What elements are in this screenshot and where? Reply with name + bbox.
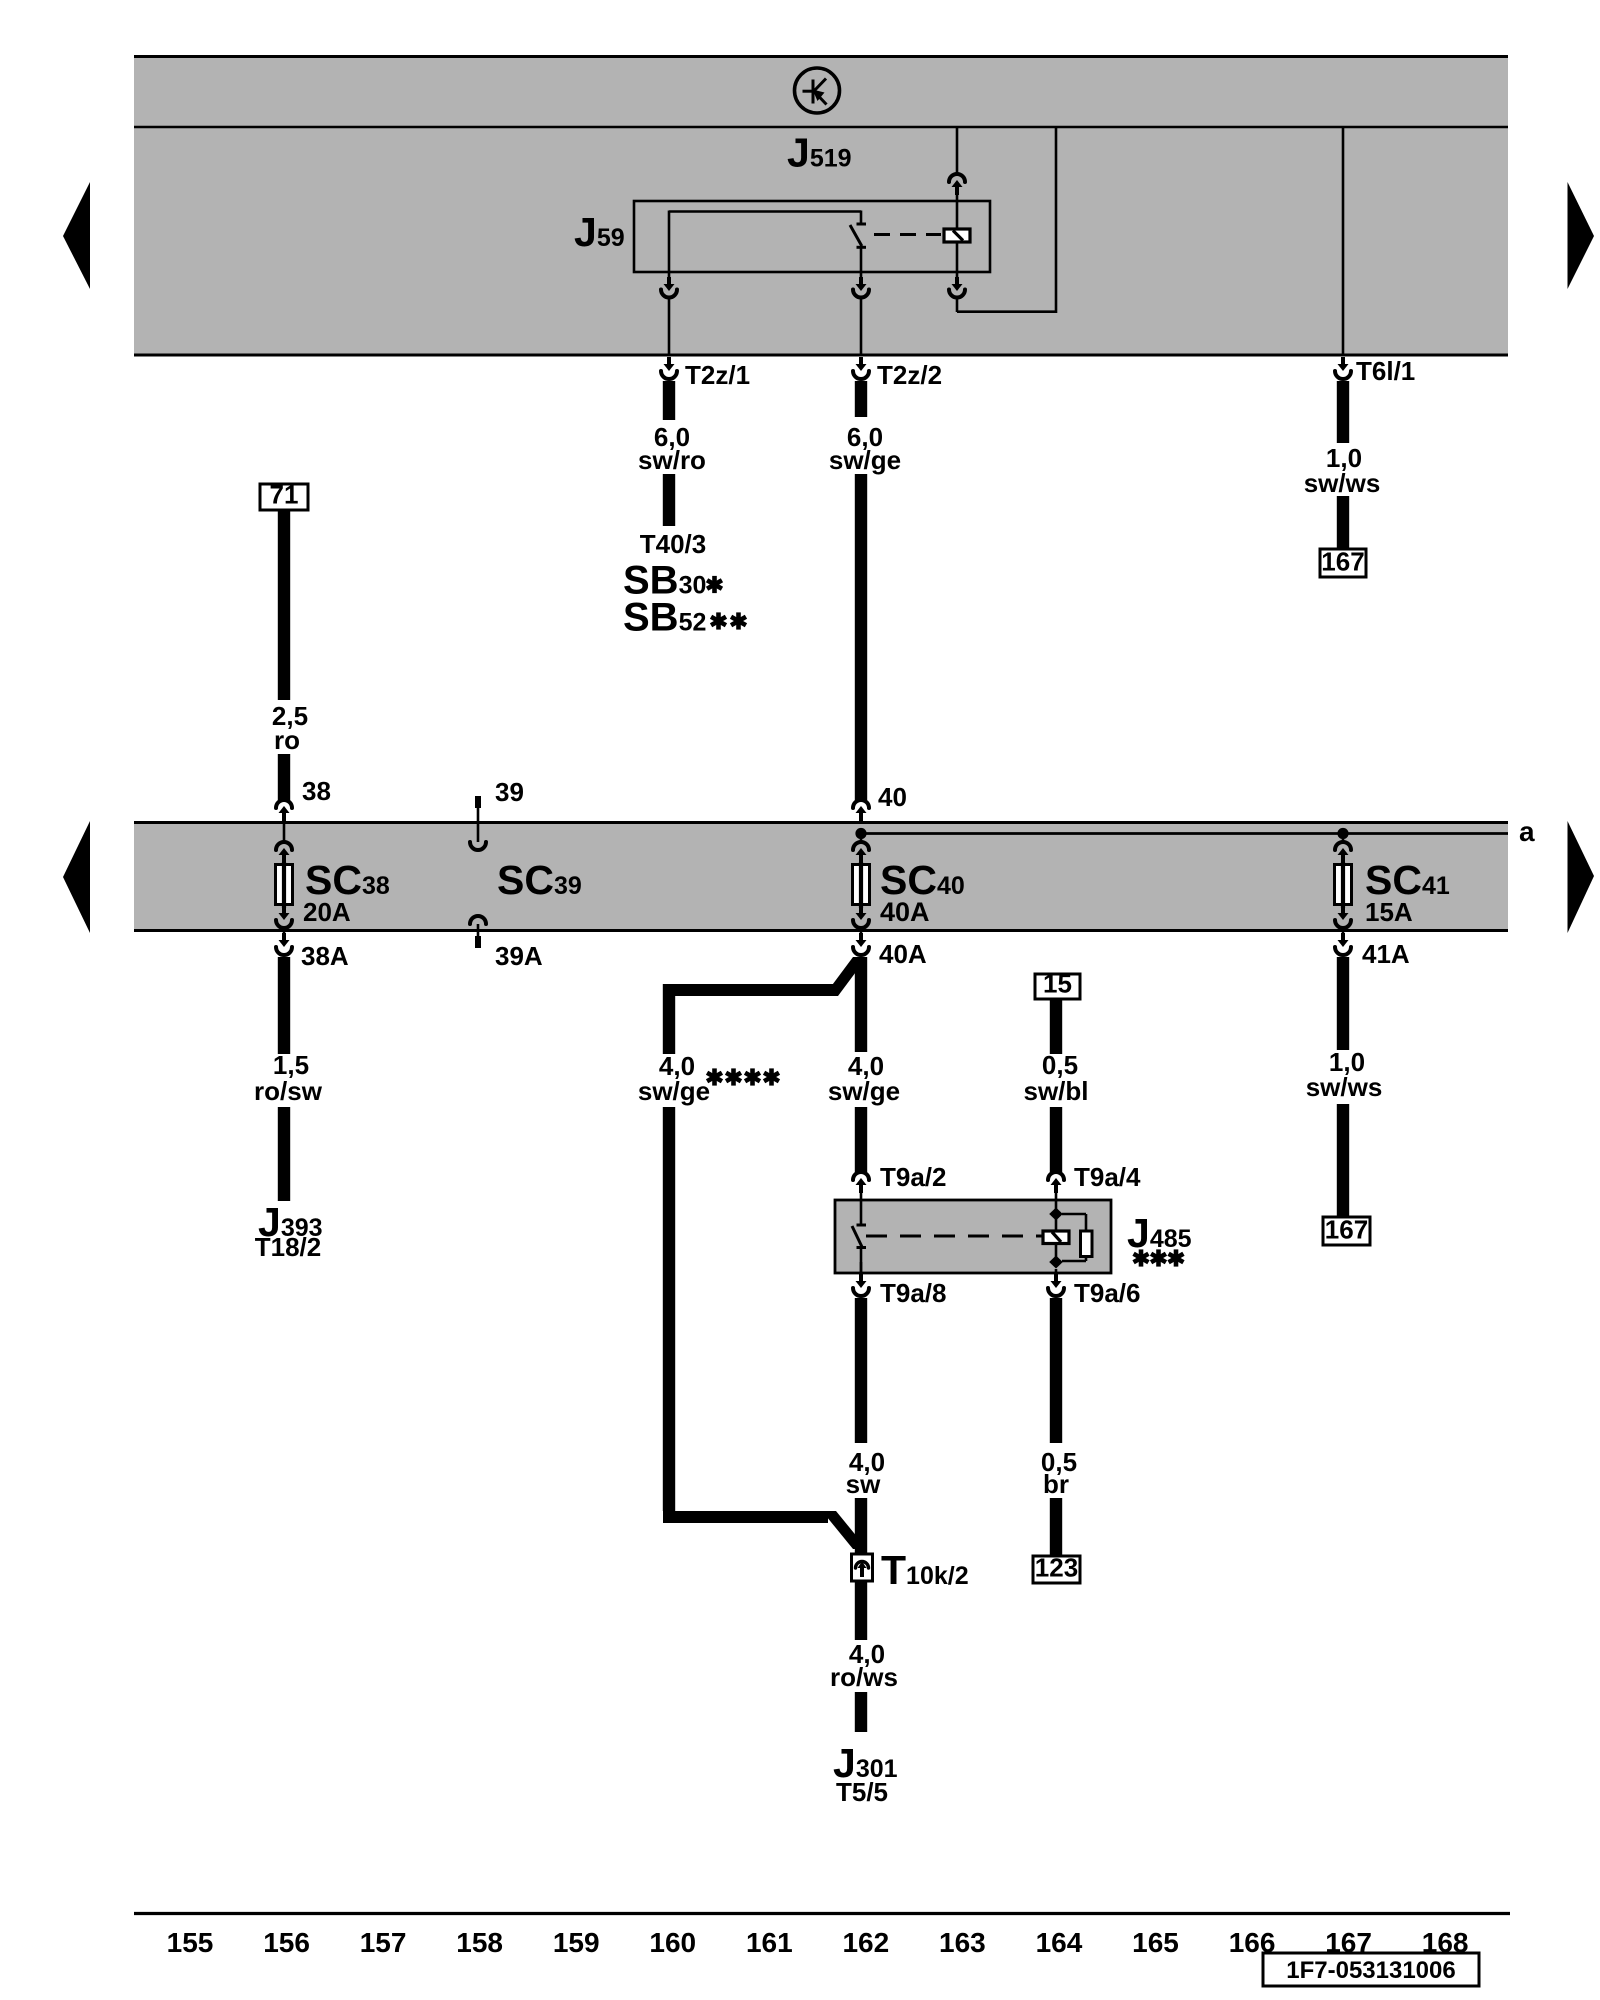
svg-text:sw/ge: sw/ge <box>638 1076 710 1106</box>
wire 1,0 sw/ws top lower <box>1337 496 1349 549</box>
relay box J59 <box>634 201 990 272</box>
switch J485 <box>860 1200 863 1225</box>
svg-text:165: 165 <box>1132 1927 1179 1958</box>
wire 4,0 ro/ws upper <box>855 1581 867 1640</box>
connector 38A <box>282 933 286 942</box>
wire J59 internal top run <box>669 210 861 213</box>
node a junction at SC40 <box>855 828 866 839</box>
wire branch bottom diagonal <box>822 1511 867 1549</box>
wire 4,0 ro/ws lower <box>855 1692 867 1732</box>
wire 4,0 sw/ge to T9a/2 <box>855 1107 867 1172</box>
fuse panel gray band <box>134 821 1508 932</box>
fuse position SC39 upper stub <box>475 796 481 808</box>
svg-text:sw/ws: sw/ws <box>1306 1072 1383 1102</box>
svg-text:155: 155 <box>167 1927 214 1958</box>
svg-text:T18/2: T18/2 <box>255 1232 322 1262</box>
terminal J59 pin left (to T2z/1) <box>667 277 671 286</box>
svg-text:T2z/2: T2z/2 <box>877 360 942 390</box>
svg-text:T9a/2: T9a/2 <box>880 1162 947 1192</box>
terminal box 15 <box>1035 974 1080 999</box>
terminal J59 coil bottom <box>956 242 959 277</box>
svg-text:163: 163 <box>939 1927 986 1958</box>
svg-text:167: 167 <box>1325 1215 1368 1245</box>
svg-text:sw: sw <box>846 1469 881 1499</box>
wire 0,5 sw/bl lower <box>1050 1107 1062 1172</box>
continuation arrow top-left <box>63 182 90 289</box>
bus wire a <box>861 832 1508 835</box>
wire 6,0 sw/ro lower <box>663 474 675 526</box>
dashed actuation line J485 <box>866 1235 1042 1238</box>
wire 2,5 ro lower <box>278 754 290 800</box>
fuse SC40 <box>860 839 863 843</box>
relay box J485 <box>835 1200 1111 1273</box>
svg-text:20A: 20A <box>303 897 351 927</box>
svg-text:ro/sw: ro/sw <box>254 1076 323 1106</box>
svg-text:38: 38 <box>302 776 331 806</box>
interior-light symbol K in circle <box>795 68 840 113</box>
svg-text:sw/ro: sw/ro <box>638 445 706 475</box>
svg-text:158: 158 <box>456 1927 503 1958</box>
fuse SC41 <box>1342 839 1345 843</box>
svg-text:sw/ws: sw/ws <box>1304 468 1381 498</box>
connector node 38 <box>276 800 292 808</box>
wire 4,0 sw/ge branch vertical upper <box>663 984 675 1054</box>
svg-text:T2z/1: T2z/1 <box>685 360 750 390</box>
wire 0,5 br lower <box>1050 1498 1062 1556</box>
wire 4,0 sw lower <box>855 1498 867 1556</box>
svg-text:T9a/8: T9a/8 <box>880 1278 947 1308</box>
connector T9a/6 <box>1055 1269 1058 1273</box>
dashed actuation line J59 <box>874 233 941 236</box>
svg-text:T5/5: T5/5 <box>836 1777 888 1807</box>
connector 41A <box>1341 933 1345 942</box>
svg-text:40A: 40A <box>880 897 930 927</box>
control unit J519 gray band <box>134 55 1508 356</box>
wire 6,0 sw/ge long run <box>855 474 867 800</box>
svg-text:159: 159 <box>553 1927 600 1958</box>
relay coil J59 <box>944 229 970 242</box>
connector T6l/1 <box>1341 357 1345 366</box>
wire coil top to J519 line <box>956 127 959 175</box>
svg-text:T40/3: T40/3 <box>640 529 707 559</box>
svg-text:39A: 39A <box>495 941 543 971</box>
svg-text:164: 164 <box>1036 1927 1083 1958</box>
fuse SC38 <box>283 818 286 843</box>
wire 4,0 sw/ge branch vertical lower <box>663 1107 675 1511</box>
svg-text:156: 156 <box>263 1927 310 1958</box>
svg-text:40A: 40A <box>879 939 927 969</box>
svg-text:161: 161 <box>746 1927 793 1958</box>
svg-text:sw/bl: sw/bl <box>1023 1076 1088 1106</box>
svg-text:ro: ro <box>274 725 300 755</box>
wire coil return to J519 line <box>957 310 1056 313</box>
svg-text:ro/ws: ro/ws <box>830 1662 898 1692</box>
node a junction at SC41 <box>1337 828 1348 839</box>
continuation arrow top-right <box>1568 182 1595 289</box>
continuation arrow mid-left <box>63 821 90 933</box>
junction diamond top <box>1049 1208 1063 1221</box>
connector T2z/1 <box>667 357 671 366</box>
connector node 40 <box>853 800 869 808</box>
svg-text:15: 15 <box>1043 969 1072 999</box>
wire 0,5 sw/bl upper <box>1050 999 1062 1054</box>
wire 4,0 sw/ge branch horizontal <box>663 984 833 996</box>
svg-text:1F7-053131006: 1F7-053131006 <box>1286 1957 1455 1984</box>
svg-text:15A: 15A <box>1365 897 1413 927</box>
wire 2,5 ro upper <box>278 510 290 700</box>
connector 40A <box>859 933 863 942</box>
svg-text:157: 157 <box>360 1927 407 1958</box>
wire 4,0 sw/ge branch diagonal <box>824 957 867 996</box>
svg-text:T6l/1: T6l/1 <box>1356 356 1415 386</box>
connector T2z/2 <box>859 357 863 366</box>
terminal pair on coil top feed <box>949 174 965 182</box>
svg-text:167: 167 <box>1321 547 1364 577</box>
svg-text:sw/ge: sw/ge <box>828 1076 900 1106</box>
bottom rule <box>134 1912 1510 1915</box>
continuation arrow mid-right <box>1568 821 1595 933</box>
svg-text:160: 160 <box>649 1927 696 1958</box>
svg-text:39: 39 <box>495 777 524 807</box>
svg-text:38A: 38A <box>301 941 349 971</box>
relay coil J485 feed <box>1055 1200 1058 1212</box>
terminal box 71 <box>260 484 308 510</box>
svg-text:sw/ge: sw/ge <box>829 445 901 475</box>
svg-text:a: a <box>1519 816 1535 847</box>
svg-text:162: 162 <box>842 1927 889 1958</box>
diagram reference box <box>1263 1953 1479 1986</box>
terminal J59 pin mid (to T2z/2) <box>859 277 863 286</box>
wire branch bottom horizontal <box>663 1511 828 1523</box>
wire 4,0 sw/ge main upper <box>855 957 867 1052</box>
svg-text:T9a/6: T9a/6 <box>1074 1278 1141 1308</box>
svg-text:T9a/4: T9a/4 <box>1074 1162 1141 1192</box>
wire 6,0 sw/ge upper <box>855 381 867 417</box>
wire 1,5 ro/sw upper <box>278 957 290 1054</box>
wire 1,0 sw/ws bottom lower <box>1337 1104 1349 1217</box>
wire 1,0 sw/ws top segment <box>1337 381 1349 443</box>
relay coil J485 <box>1055 1214 1058 1231</box>
svg-text:123: 123 <box>1035 1553 1078 1583</box>
svg-text:40: 40 <box>878 782 907 812</box>
svg-text:71: 71 <box>270 480 299 510</box>
connector T9a/2 <box>853 1172 869 1180</box>
ground box 123 <box>1033 1556 1080 1583</box>
wire 6,0 sw/ro upper <box>663 381 675 420</box>
wire J519 to T6l/1 <box>1342 127 1345 356</box>
switch contact J59 <box>857 223 867 226</box>
connector T9a/8 <box>859 1274 863 1283</box>
wire J485 bottom left <box>860 1262 863 1273</box>
resistor branch J485 <box>1062 1213 1086 1216</box>
wire 1,0 sw/ws bottom segment <box>1337 957 1349 1050</box>
wire 4,0 sw upper <box>855 1298 867 1443</box>
fuse position SC39 lower stub <box>470 916 486 924</box>
junction diamond bottom <box>1049 1256 1063 1269</box>
terminal box 167 upper <box>1320 549 1366 577</box>
terminal box 167 lower <box>1323 1217 1370 1245</box>
svg-text:br: br <box>1043 1469 1069 1499</box>
wire 1,5 ro/sw lower <box>278 1107 290 1201</box>
connector T9a/4 <box>1048 1172 1064 1180</box>
wire 0,5 br upper <box>1050 1298 1062 1443</box>
svg-text:41A: 41A <box>1362 939 1410 969</box>
connector T10k/2 <box>852 1554 873 1581</box>
